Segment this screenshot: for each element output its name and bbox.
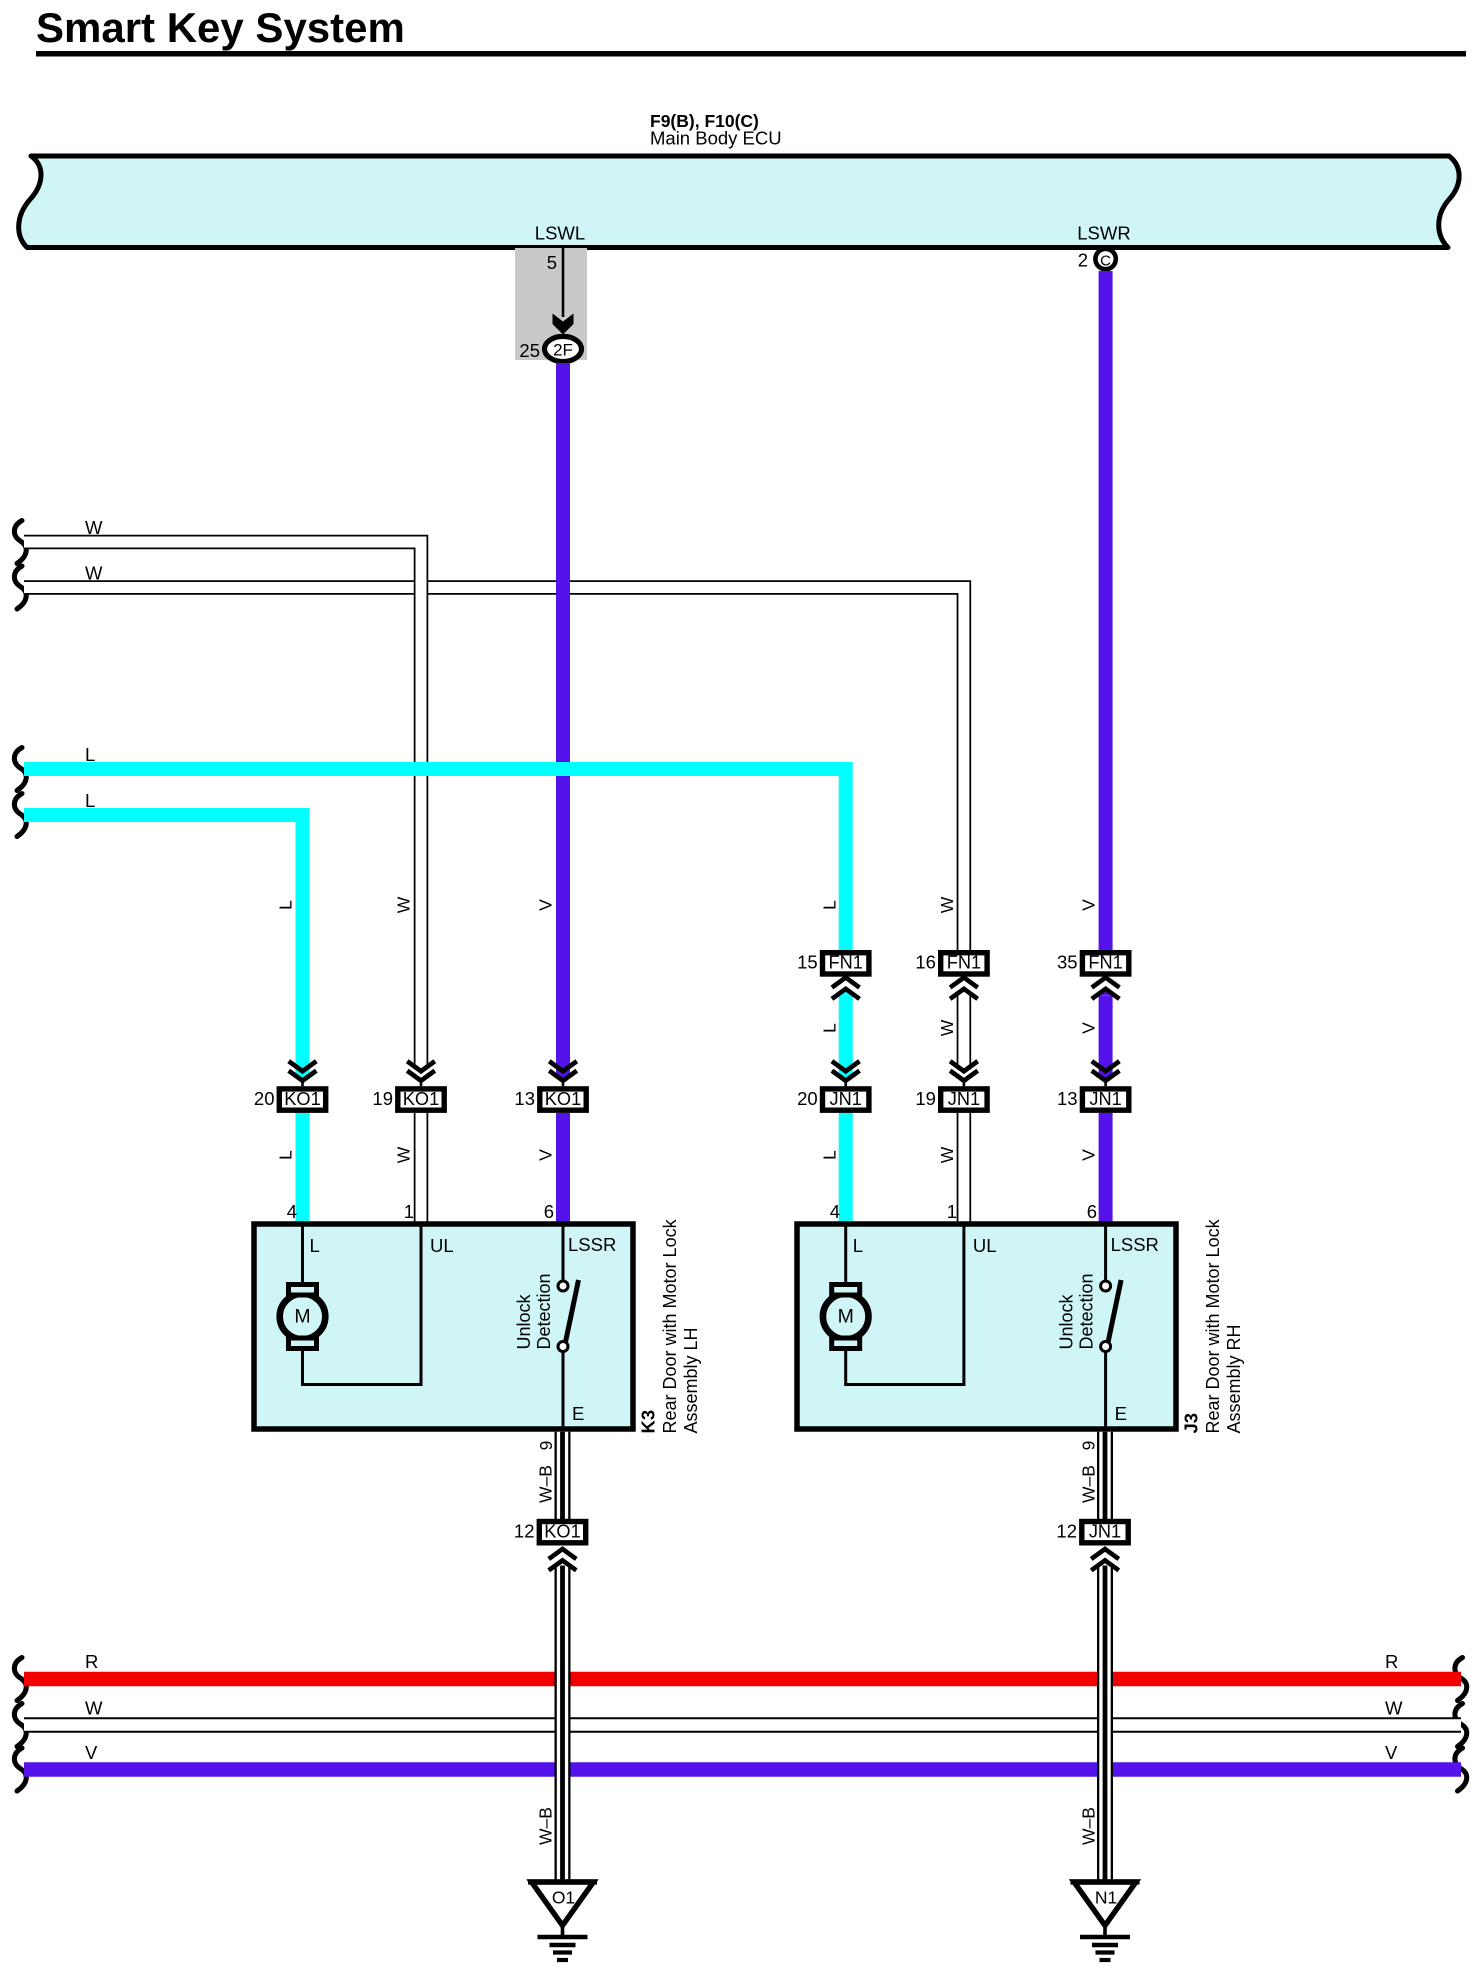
- svg-text:W: W: [937, 1019, 957, 1036]
- torn end, L run 2: [14, 794, 26, 837]
- svg-text:V: V: [1079, 1149, 1099, 1161]
- svg-text:L: L: [85, 744, 95, 765]
- wire W-B 12 KO1 to ground O1: [555, 1566, 571, 1885]
- svg-text:Assembly RH: Assembly RH: [1224, 1324, 1244, 1433]
- svg-text:12: 12: [1056, 1521, 1077, 1542]
- svg-text:V: V: [1079, 1022, 1099, 1034]
- wire V between 35 FN1 and 13 JN1: [1099, 996, 1113, 1075]
- wire W-B 12 JN1 to ground N1: [1097, 1566, 1113, 1885]
- internal wire motor to UL pin: [846, 1224, 964, 1385]
- connector 12 KO1: [539, 1522, 585, 1543]
- svg-text:13: 13: [514, 1088, 535, 1109]
- svg-text:19: 19: [372, 1088, 393, 1109]
- svg-text:Smart Key System: Smart Key System: [36, 4, 405, 51]
- connector 13 KO1: [540, 1089, 586, 1110]
- svg-text:O1: O1: [552, 1888, 575, 1908]
- arrow into 13 KO1: [549, 1061, 577, 1071]
- svg-text:13: 13: [1057, 1088, 1078, 1109]
- torn end, W run 2: [14, 566, 26, 609]
- arrow out of 35 FN1: [1092, 978, 1120, 988]
- arrow into 19 JN1: [950, 1061, 978, 1071]
- svg-text:KO1: KO1: [284, 1089, 320, 1109]
- svg-text:4: 4: [830, 1201, 840, 1222]
- svg-text:25: 25: [519, 340, 540, 361]
- svg-text:FN1: FN1: [947, 953, 981, 973]
- arrow out of 12 KO1: [549, 1549, 577, 1559]
- svg-text:Rear Door with Motor Lock: Rear Door with Motor Lock: [660, 1218, 680, 1433]
- ground O1: [532, 1882, 594, 1926]
- svg-text:C: C: [1100, 253, 1111, 270]
- wire W between 16 FN1 and 19 JN1: [957, 994, 972, 1069]
- wire V, 13 KO1 to pin 6 (LH): [556, 1113, 570, 1224]
- wire L, 20 KO1 to pin 4 (LH): [296, 1113, 310, 1224]
- svg-text:W–B: W–B: [1079, 1465, 1099, 1503]
- solid arrow head: [553, 314, 574, 335]
- arrow out of 15 FN1: [832, 978, 860, 988]
- arrow into 20 JN1: [832, 1061, 860, 1071]
- svg-text:W: W: [1385, 1698, 1403, 1719]
- torn end, W run right: [1455, 1704, 1467, 1747]
- wire W-B pin 9 to 12 KO1 (LH): [555, 1432, 571, 1523]
- connector 15 FN1: [823, 953, 869, 974]
- connector 12 JN1: [1082, 1522, 1128, 1543]
- svg-text:6: 6: [1087, 1201, 1097, 1222]
- wire V from LSWR to 35 FN1: [1099, 271, 1113, 953]
- main body ECU band (F9/F10): [19, 156, 1459, 248]
- svg-text:KO1: KO1: [545, 1089, 581, 1109]
- arrow into 20 KO1: [289, 1061, 317, 1071]
- svg-text:5: 5: [547, 252, 557, 273]
- torn end, V run right: [1455, 1748, 1467, 1791]
- connector 20 JN1: [823, 1089, 869, 1110]
- wire V from 2F to 13 KO1: [556, 363, 570, 1075]
- gray junction block under LSWL: [515, 248, 587, 360]
- svg-text:V: V: [1079, 899, 1099, 911]
- wire L (run 1) to 15 FN1: [24, 769, 846, 953]
- connector 13 JN1: [1082, 1089, 1128, 1110]
- svg-text:JN1: JN1: [830, 1089, 862, 1109]
- rear door with motor lock assembly RH (J3): [797, 1224, 1176, 1429]
- svg-text:Unlock: Unlock: [1057, 1293, 1077, 1349]
- svg-text:2F: 2F: [553, 341, 573, 360]
- svg-text:V: V: [536, 899, 556, 911]
- connector circle C at LSWR pin 2: [1095, 249, 1115, 269]
- torn end, W run 1: [14, 521, 26, 564]
- wire from LSWL pin 5: [562, 248, 565, 317]
- svg-text:15: 15: [797, 952, 818, 973]
- wire W-B pin 9 to 12 JN1 (RH): [1097, 1432, 1113, 1523]
- svg-text:2: 2: [1078, 250, 1088, 271]
- svg-text:K3: K3: [638, 1410, 659, 1434]
- connector 19 JN1: [941, 1089, 987, 1110]
- svg-text:L: L: [276, 1150, 296, 1160]
- svg-text:12: 12: [514, 1521, 535, 1542]
- svg-text:9: 9: [1079, 1441, 1099, 1451]
- svg-text:1: 1: [404, 1201, 414, 1222]
- svg-text:Unlock: Unlock: [514, 1293, 534, 1349]
- svg-text:Assembly LH: Assembly LH: [681, 1327, 701, 1433]
- wire W (run 2) to 16 FN1: [24, 588, 964, 954]
- unlock detection switch: [1104, 1224, 1107, 1281]
- svg-text:L: L: [85, 790, 95, 811]
- rear door with motor lock assembly LH (K3): [254, 1224, 633, 1429]
- svg-text:L: L: [276, 900, 296, 910]
- arrow out of 16 FN1: [950, 978, 978, 988]
- torn end, V run left: [14, 1748, 26, 1791]
- torn end, R run left: [14, 1658, 26, 1701]
- svg-text:E: E: [572, 1403, 584, 1424]
- connector oval 2F: [545, 336, 582, 361]
- svg-text:W: W: [394, 1146, 414, 1163]
- connector 20 KO1: [279, 1089, 325, 1110]
- svg-text:V: V: [85, 1742, 98, 1763]
- svg-text:Detection: Detection: [1077, 1273, 1097, 1349]
- wire W (bottom run): [24, 1717, 1461, 1733]
- svg-text:M: M: [294, 1306, 310, 1328]
- svg-text:W–B: W–B: [1079, 1807, 1099, 1845]
- wire W (run 1) to 19 KO1: [24, 542, 421, 1069]
- svg-text:6: 6: [544, 1201, 554, 1222]
- svg-text:W–B: W–B: [536, 1807, 556, 1845]
- svg-text:4: 4: [287, 1201, 297, 1222]
- svg-text:E: E: [1115, 1403, 1127, 1424]
- motor M: [844, 1224, 847, 1285]
- torn end, L run 1: [14, 748, 26, 791]
- svg-text:R: R: [1385, 1651, 1398, 1672]
- svg-text:JN1: JN1: [1089, 1089, 1121, 1109]
- arrow into 19 KO1: [407, 1061, 435, 1071]
- svg-text:1: 1: [947, 1201, 957, 1222]
- svg-text:W: W: [937, 896, 957, 913]
- svg-text:L: L: [820, 1023, 840, 1033]
- svg-text:LSWR: LSWR: [1077, 223, 1130, 244]
- svg-text:Main Body ECU: Main Body ECU: [650, 128, 782, 149]
- wire W, 19 KO1 to pin 1 (LH): [414, 1113, 429, 1224]
- svg-text:W: W: [85, 1698, 103, 1719]
- wire V, 13 JN1 to pin 6 (RH): [1099, 1113, 1113, 1224]
- wire W, 19 JN1 to pin 1 (RH): [957, 1113, 972, 1224]
- unlock detection switch: [562, 1224, 565, 1281]
- wire L (run 2) to 20 KO1: [24, 815, 303, 1075]
- svg-text:20: 20: [797, 1088, 818, 1109]
- torn end, R run right: [1455, 1658, 1467, 1701]
- svg-text:20: 20: [254, 1088, 275, 1109]
- wire V (bottom run): [24, 1762, 1461, 1776]
- svg-text:W: W: [937, 1146, 957, 1163]
- svg-text:FN1: FN1: [1088, 953, 1122, 973]
- svg-text:R: R: [85, 1651, 98, 1672]
- svg-text:L: L: [820, 900, 840, 910]
- svg-text:J3: J3: [1181, 1413, 1202, 1434]
- svg-text:19: 19: [915, 1088, 936, 1109]
- svg-text:35: 35: [1057, 952, 1078, 973]
- connector 19 KO1: [398, 1089, 444, 1110]
- svg-text:N1: N1: [1095, 1888, 1117, 1908]
- svg-text:LSSR: LSSR: [1111, 1234, 1159, 1255]
- svg-text:W: W: [394, 896, 414, 913]
- svg-text:L: L: [310, 1235, 320, 1256]
- title underline: [36, 51, 1466, 57]
- svg-text:16: 16: [915, 952, 936, 973]
- svg-text:Detection: Detection: [534, 1273, 554, 1349]
- svg-text:W–B: W–B: [536, 1465, 556, 1503]
- svg-text:LSWL: LSWL: [535, 223, 585, 244]
- svg-text:9: 9: [536, 1441, 556, 1451]
- connector 35 FN1: [1082, 953, 1128, 974]
- motor M: [301, 1224, 304, 1285]
- wire R (bottom run): [24, 1672, 1461, 1686]
- svg-text:UL: UL: [430, 1235, 454, 1256]
- torn end, W run left: [14, 1704, 26, 1747]
- svg-text:JN1: JN1: [1089, 1522, 1121, 1542]
- svg-text:UL: UL: [973, 1235, 997, 1256]
- svg-text:V: V: [1385, 1742, 1398, 1763]
- svg-text:M: M: [838, 1306, 854, 1328]
- connector 16 FN1: [941, 953, 987, 974]
- svg-text:L: L: [820, 1150, 840, 1160]
- ground N1: [1074, 1882, 1136, 1926]
- arrow out of 12 JN1: [1091, 1549, 1119, 1559]
- svg-text:L: L: [853, 1235, 863, 1256]
- internal wire motor to UL pin: [303, 1224, 422, 1385]
- wire L between 15 FN1 and 20 JN1: [839, 996, 853, 1075]
- svg-text:LSSR: LSSR: [568, 1234, 616, 1255]
- svg-text:KO1: KO1: [544, 1522, 580, 1542]
- svg-text:V: V: [536, 1149, 556, 1161]
- wire L, 20 JN1 to pin 4 (RH): [839, 1113, 853, 1224]
- svg-text:FN1: FN1: [829, 953, 863, 973]
- arrow into 13 JN1: [1092, 1061, 1120, 1071]
- svg-text:KO1: KO1: [403, 1089, 439, 1109]
- svg-text:JN1: JN1: [948, 1089, 980, 1109]
- svg-text:Rear Door with Motor Lock: Rear Door with Motor Lock: [1203, 1218, 1223, 1433]
